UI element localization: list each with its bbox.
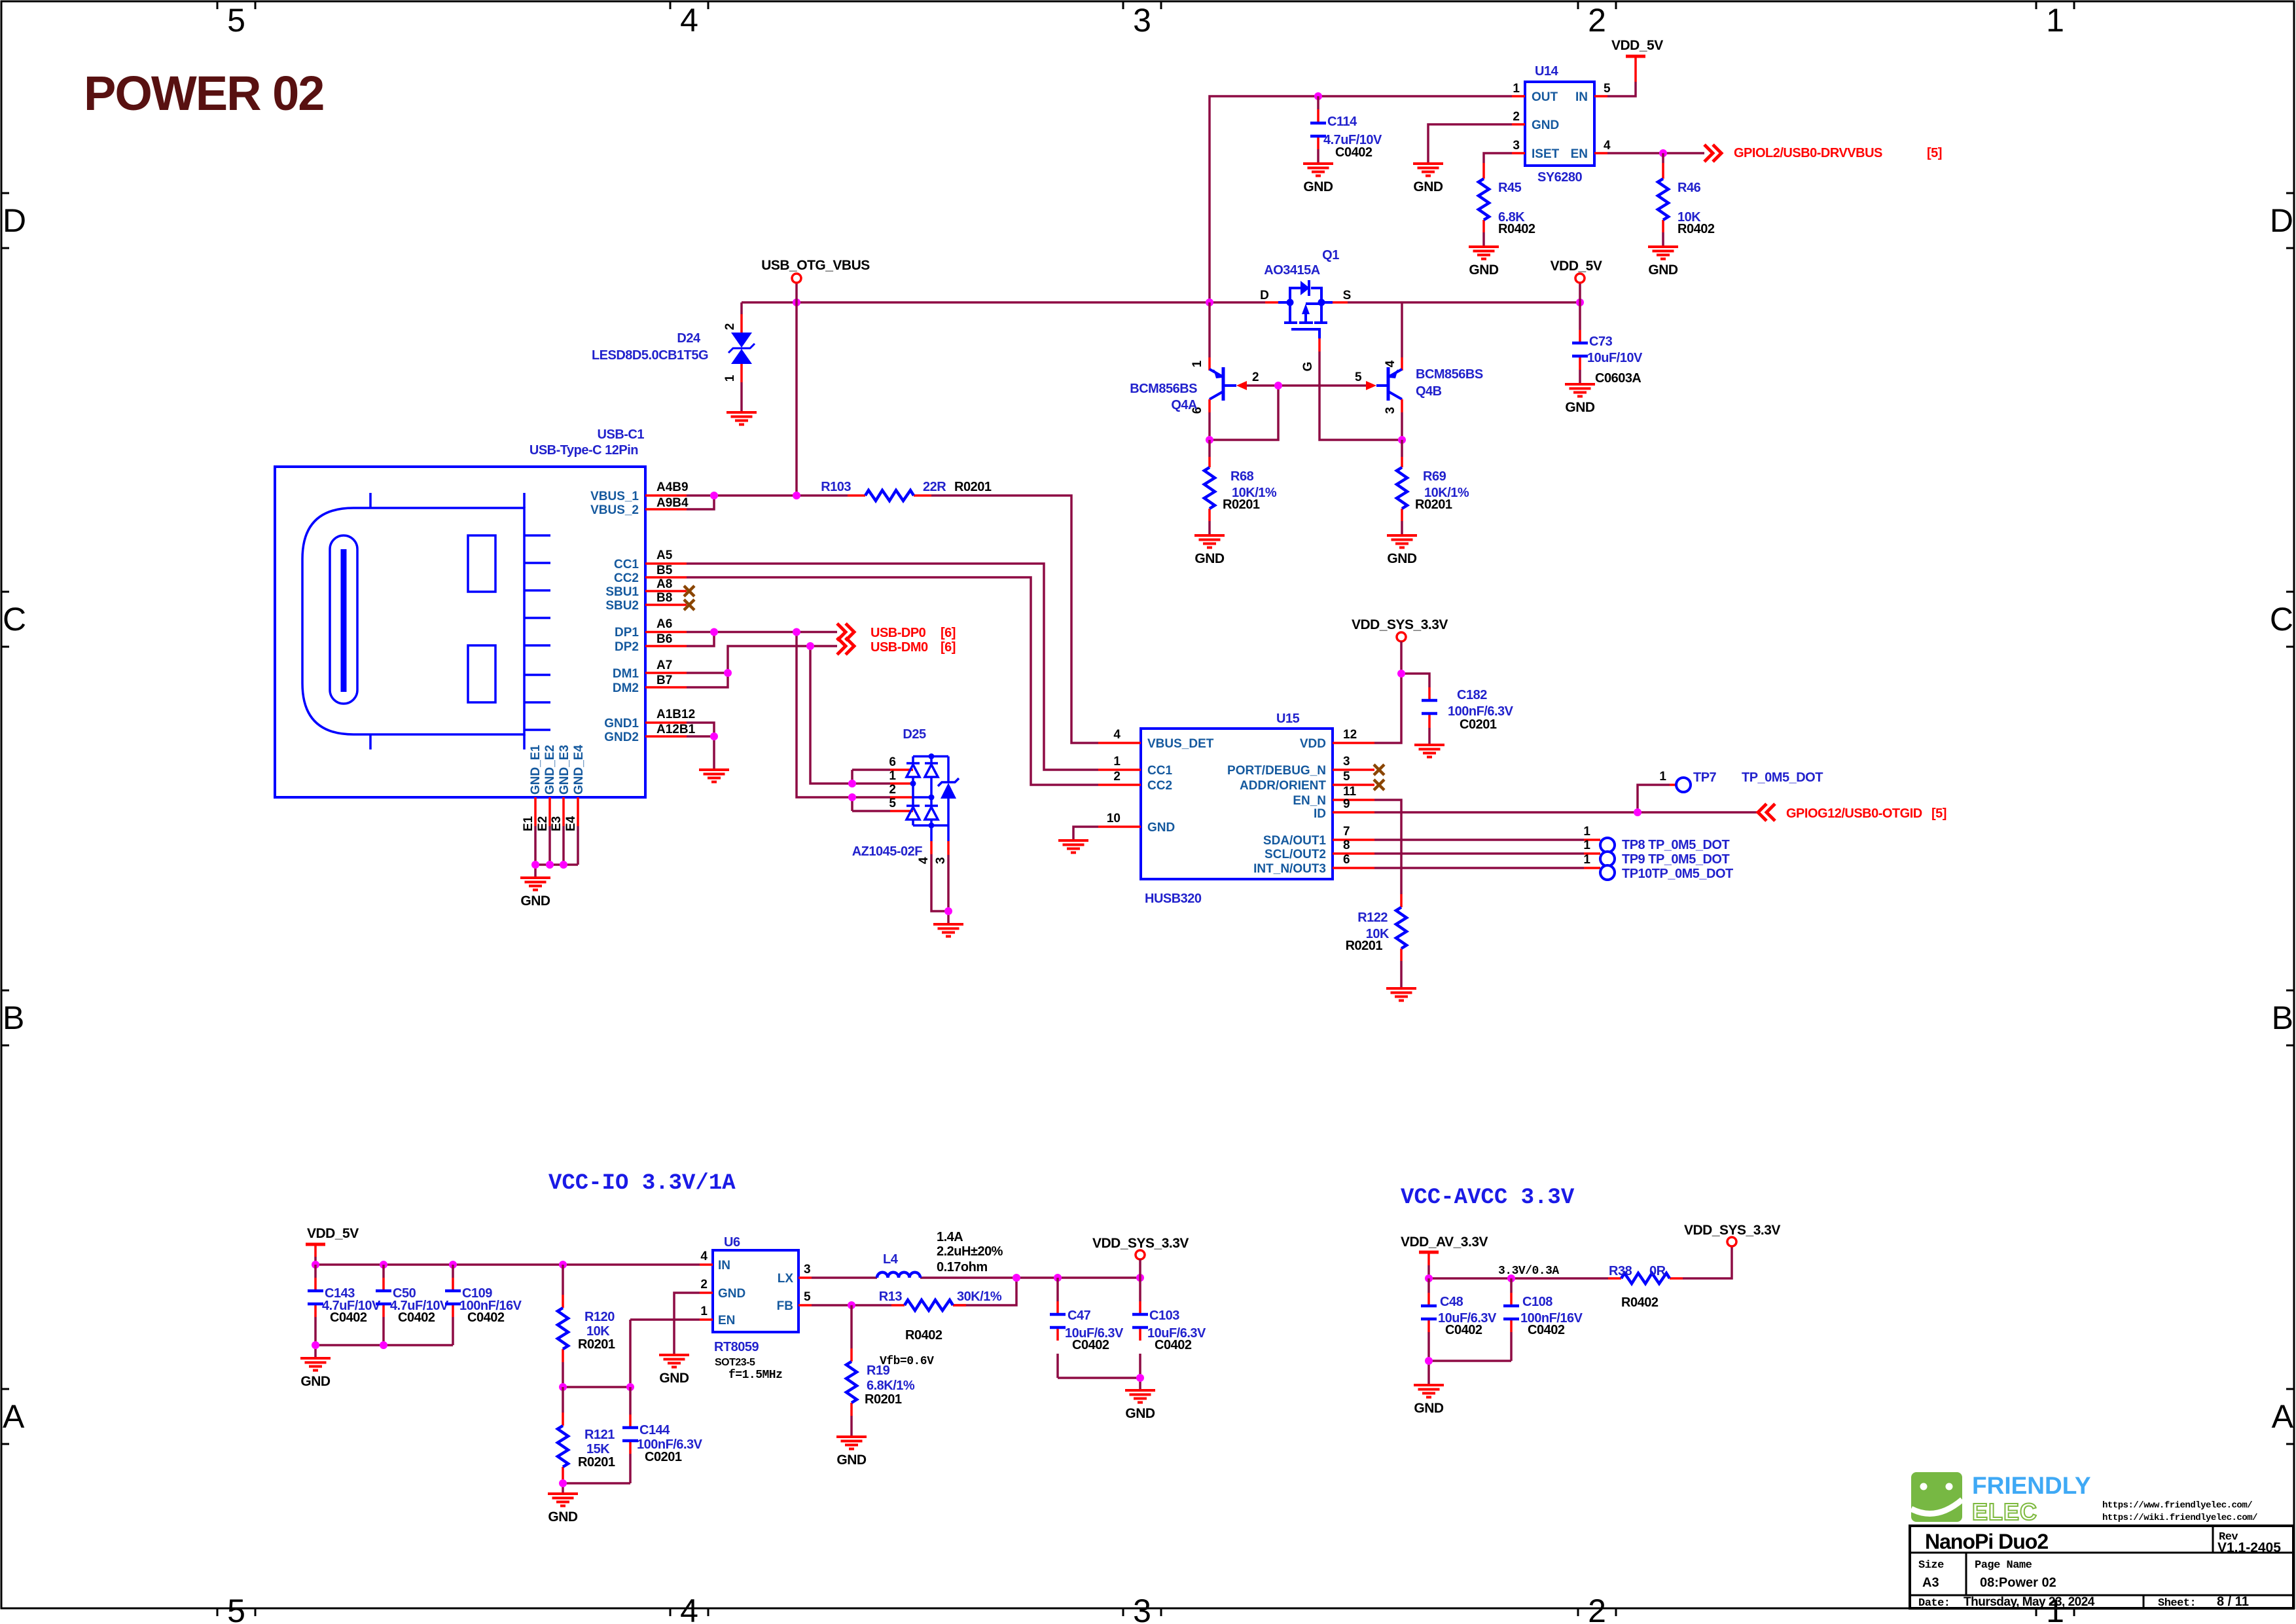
svg-text:FB: FB (777, 1299, 793, 1313)
no-connect X SBU1 (684, 586, 694, 596)
wire EN divider tie (563, 1320, 700, 1387)
svg-text:A: A (2272, 1398, 2294, 1435)
svg-text:GND: GND (718, 1287, 745, 1301)
svg-text:B6: B6 (656, 632, 672, 646)
pin DM2 B7 (645, 686, 687, 689)
node R121 junction (559, 1383, 567, 1391)
svg-text:TP10TP_0M5_DOT: TP10TP_0M5_DOT (1622, 867, 1733, 881)
ground output caps (1125, 1390, 1155, 1403)
wire U14 GND (pin2) (1428, 124, 1512, 164)
power symbol VDD_5V near Q1 (1579, 283, 1581, 302)
svg-text:C0402: C0402 (330, 1310, 367, 1325)
node C50 junction (380, 1261, 387, 1269)
node GND tie junction (710, 732, 718, 740)
svg-text:1: 1 (1659, 770, 1666, 784)
svg-text:SBU2: SBU2 (605, 599, 639, 613)
svg-text:GND_E4: GND_E4 (572, 745, 586, 795)
svg-text:3: 3 (1133, 1593, 1151, 1624)
wire Q4B collector down (1401, 412, 1403, 440)
svg-text:TP9 TP_0M5_DOT: TP9 TP_0M5_DOT (1622, 852, 1729, 867)
svg-text:OUT: OUT (1532, 90, 1558, 104)
pin 7 SDA/OUT1 (1333, 839, 1374, 841)
node R46 junction (1659, 149, 1667, 157)
svg-text:f=1.5MHz: f=1.5MHz (728, 1369, 782, 1382)
wire DM net (687, 646, 890, 784)
svg-text:SOT23-5: SOT23-5 (715, 1357, 755, 1368)
pin VBUS_1 A4B9 (645, 494, 687, 497)
wire U14 ISET (pin3) to R45 (1484, 153, 1512, 163)
svg-text:A7: A7 (656, 659, 672, 672)
svg-text:C: C (2270, 601, 2293, 638)
svg-text:C0402: C0402 (1155, 1338, 1192, 1352)
svg-text:1.4A: 1.4A (937, 1230, 963, 1244)
svg-text:1: 1 (1583, 825, 1590, 839)
svg-text:POWER 02: POWER 02 (84, 66, 323, 120)
svg-text:C144: C144 (639, 1423, 670, 1437)
pin GND_E1..E4 labels (529, 745, 586, 795)
resistor R46 (1658, 153, 1715, 247)
svg-text:[5]: [5] (1927, 146, 1942, 160)
node pin2 junction (848, 793, 856, 801)
pin 3 (947, 841, 950, 855)
pin 3 PORT/DEBUG_N (1333, 768, 1374, 771)
svg-text:VCC-AVCC 3.3V: VCC-AVCC 3.3V (1401, 1185, 1575, 1210)
power symbol USB_OTG_VBUS (795, 283, 798, 302)
svg-text:SCL/OUT2: SCL/OUT2 (1265, 848, 1326, 861)
svg-text:A6: A6 (656, 617, 672, 631)
svg-text:https://wiki.friendlyelec.com/: https://wiki.friendlyelec.com/ (2102, 1513, 2257, 1523)
IC U6 RT8059 (700, 1235, 812, 1382)
svg-text:4: 4 (680, 1593, 698, 1624)
svg-text:5: 5 (227, 2, 245, 39)
capacitor C144 (622, 1387, 703, 1483)
svg-text:GND_E3: GND_E3 (558, 745, 571, 795)
ground below C114 (1303, 164, 1333, 176)
svg-text:VDD_5V: VDD_5V (1611, 38, 1663, 53)
svg-text:GND: GND (1147, 821, 1175, 835)
no-connect X pin5 (1374, 780, 1384, 790)
ground D25 (933, 924, 963, 937)
ground USB-C shield (699, 770, 729, 782)
svg-text:VDD: VDD (1300, 737, 1326, 751)
svg-text:D24: D24 (677, 331, 701, 346)
svg-text:Page Name: Page Name (1975, 1559, 2032, 1572)
svg-text:GND1: GND1 (604, 717, 639, 731)
svg-text:BCM856BS: BCM856BS (1130, 382, 1197, 396)
svg-text:E1: E1 (522, 816, 535, 831)
svg-text:G: G (1301, 362, 1315, 372)
pin 10 GND (1098, 825, 1141, 828)
svg-text:B5: B5 (656, 564, 673, 577)
pin SBU2 B8 (645, 604, 687, 606)
svg-text:30K/1%: 30K/1% (957, 1290, 1002, 1304)
svg-text:22R: 22R (923, 480, 946, 494)
svg-text:3: 3 (804, 1263, 811, 1276)
svg-text:E4: E4 (564, 816, 578, 831)
node R19 junction (848, 1301, 855, 1309)
transistor Q1 AO3415A (P-MOSFET) (1260, 248, 1351, 371)
ground below R122 (1386, 988, 1416, 1001)
wire VDD_5V to U14 IN (pin5) (1607, 82, 1636, 96)
svg-text:A9B4: A9B4 (656, 496, 689, 510)
svg-text:12: 12 (1343, 728, 1357, 742)
svg-text:C0402: C0402 (1335, 145, 1372, 160)
svg-text:2: 2 (1113, 770, 1121, 784)
svg-text:L4: L4 (883, 1252, 899, 1267)
test point TP7 (1670, 784, 1676, 786)
node C103 junction (1136, 1274, 1144, 1282)
node E2 junction (546, 861, 554, 869)
wire SCL/OUT2 to TP9 (1374, 852, 1584, 855)
svg-text:1: 1 (1113, 755, 1121, 768)
wire Q1 gate down to Q4B collector net (1319, 352, 1402, 440)
wire VDD_5V input rail (315, 1263, 700, 1266)
svg-text:GND: GND (1532, 118, 1559, 132)
IC U15 box (1098, 712, 1374, 906)
svg-text:TP_0M5_DOT: TP_0M5_DOT (1742, 770, 1823, 785)
resistor R45 (1479, 163, 1535, 247)
svg-text:8: 8 (1343, 839, 1350, 852)
wire U15 GND pin10 (1073, 827, 1098, 840)
pin E3 (562, 797, 565, 826)
svg-text:D: D (3, 202, 26, 239)
svg-text:2: 2 (1252, 370, 1259, 384)
svg-text:R0402: R0402 (1498, 222, 1535, 236)
capacitor C103 (1132, 1278, 1206, 1378)
capacitor C143 (308, 1265, 381, 1345)
svg-text:IN: IN (1575, 90, 1588, 104)
svg-text:A8: A8 (656, 577, 672, 591)
svg-text:VDD_SYS_3.3V: VDD_SYS_3.3V (1684, 1223, 1780, 1238)
svg-text:INT_N/OUT3: INT_N/OUT3 (1253, 862, 1326, 876)
svg-text:GND: GND (1565, 400, 1595, 415)
pin 2 (890, 796, 913, 799)
svg-text:1: 1 (700, 1305, 708, 1318)
node VBUS column junction (793, 492, 800, 499)
diode D24 LESD8D5.0CB1T5G (TVS) (592, 302, 755, 412)
svg-text:R68: R68 (1230, 469, 1254, 484)
svg-text:EN: EN (1571, 147, 1588, 161)
svg-text:1: 1 (1583, 853, 1590, 867)
svg-text:R0402: R0402 (1621, 1295, 1659, 1310)
svg-text:8 / 11: 8 / 11 (2217, 1595, 2249, 1609)
ground below D24 (726, 412, 757, 425)
svg-text:C0402: C0402 (1528, 1323, 1565, 1337)
svg-text:R0402: R0402 (1677, 222, 1715, 236)
svg-text:U15: U15 (1276, 712, 1300, 726)
svg-text:ADDR/ORIENT: ADDR/ORIENT (1240, 779, 1326, 793)
svg-text:C0201: C0201 (1460, 717, 1497, 732)
wire LX output rail (812, 1276, 1140, 1279)
capacitor C114 (1310, 96, 1382, 164)
svg-text:C0402: C0402 (398, 1310, 435, 1325)
svg-text:R0201: R0201 (1415, 497, 1452, 512)
resistor R38 0R (1608, 1264, 1683, 1310)
pin CC2 B5 (645, 576, 687, 579)
pin 1 (890, 782, 913, 785)
ground avcc caps (1414, 1385, 1444, 1398)
connector USB-C1 body (275, 427, 645, 797)
wire divider bottom tie (563, 1483, 630, 1494)
wire avcc caps bottom tie (1429, 1361, 1511, 1385)
logo FriendlyElec smiley (1911, 1472, 2091, 1525)
svg-text:[5]: [5] (1931, 806, 1946, 821)
diode network body (906, 757, 959, 842)
svg-text:GND: GND (520, 893, 550, 909)
svg-text:10uF/10V: 10uF/10V (1587, 351, 1643, 365)
wire ID to off-page and test points (1374, 785, 1758, 812)
node Q4A base junction (1274, 382, 1282, 389)
pin 4 VBUS_DET (1098, 742, 1141, 744)
svg-text:6: 6 (889, 755, 896, 769)
svg-text:C0603A: C0603A (1595, 371, 1641, 386)
svg-text:Thursday, May 23, 2024: Thursday, May 23, 2024 (1964, 1595, 2095, 1609)
svg-text:5: 5 (1604, 82, 1611, 96)
svg-text:CC2: CC2 (1147, 779, 1172, 793)
ground below R68 (1194, 535, 1225, 548)
wire pin2-pin5 loop (851, 797, 853, 811)
svg-text:GND: GND (300, 1374, 331, 1389)
pin 1 EN (700, 1318, 713, 1321)
svg-text:R103: R103 (821, 480, 851, 494)
wire GND1/GND2 tie (687, 723, 714, 770)
svg-text:R46: R46 (1677, 181, 1701, 195)
node DP column junction (793, 628, 800, 636)
node Q4B collector junction (1398, 436, 1406, 444)
svg-text:VBUS_1: VBUS_1 (590, 490, 639, 503)
node TP7 junction (1634, 808, 1641, 816)
svg-text:D: D (1260, 289, 1269, 302)
svg-text:0R: 0R (1649, 1264, 1666, 1278)
ground below R45 (1469, 247, 1499, 259)
svg-text:2: 2 (1588, 2, 1606, 39)
svg-text:B: B (3, 1000, 24, 1036)
svg-text:R0201: R0201 (578, 1337, 615, 1352)
svg-text:SY6280: SY6280 (1537, 170, 1583, 185)
pin VBUS_2 A9B4 (645, 508, 687, 511)
svg-text:Q1: Q1 (1322, 248, 1339, 262)
svg-text:GND: GND (1194, 551, 1225, 566)
wire CC1 to U15 (687, 564, 1098, 770)
resistor R19 (846, 1305, 915, 1437)
svg-text:TP7: TP7 (1693, 770, 1717, 785)
svg-text:LX: LX (778, 1272, 794, 1286)
svg-text:R0201: R0201 (1346, 939, 1383, 953)
svg-text:GND_E1: GND_E1 (529, 745, 543, 795)
svg-text:1: 1 (1191, 360, 1204, 367)
svg-text:TP8 TP_0M5_DOT: TP8 TP_0M5_DOT (1622, 838, 1729, 852)
svg-text:B7: B7 (656, 674, 672, 687)
node C109 junction (449, 1261, 457, 1269)
capacitor C108 (1503, 1278, 1583, 1361)
svg-text:5: 5 (1343, 770, 1350, 784)
svg-text:3: 3 (1384, 407, 1397, 414)
svg-text:B8: B8 (656, 591, 672, 605)
resistor R69 (1397, 440, 1469, 535)
wire Q4A collector to base tie (1210, 386, 1366, 440)
svg-text:C73: C73 (1589, 334, 1613, 349)
wire EN_N to R122 (1374, 800, 1401, 894)
wire main VBUS switch rail (742, 301, 1580, 304)
svg-text:GND: GND (1648, 262, 1678, 278)
off-page connector GPIOL2/USB0-DRVVBUS (1704, 145, 1721, 162)
ground U15 (1058, 840, 1088, 853)
svg-text:1: 1 (2046, 2, 2064, 39)
pin 5 FB (798, 1304, 812, 1307)
off-page connector USB-DM0 (837, 638, 854, 655)
test point TP10 (1600, 865, 1615, 880)
node LX/FB tap junction (1013, 1274, 1020, 1282)
pin GND2 A12B1 (645, 735, 687, 738)
no-connect X SBU2 (684, 600, 694, 610)
svg-text:C103: C103 (1149, 1308, 1179, 1323)
ground divider (548, 1494, 578, 1506)
svg-text:VDD_SYS_3.3V: VDD_SYS_3.3V (1092, 1236, 1189, 1251)
svg-text:C0402: C0402 (467, 1310, 505, 1325)
ground below R46 (1648, 247, 1678, 259)
ground E pins (520, 878, 550, 890)
svg-text:11: 11 (1343, 785, 1357, 799)
wire pin6-pin1 loop (851, 770, 853, 784)
capacitor C47 (1050, 1278, 1124, 1378)
node C47 junction (1054, 1274, 1062, 1282)
svg-text:10K: 10K (586, 1324, 610, 1339)
svg-text:ISET: ISET (1532, 147, 1560, 161)
svg-text:CC1: CC1 (614, 558, 639, 571)
pin 6 INT_N/OUT3 (1333, 867, 1374, 869)
svg-text:R45: R45 (1498, 181, 1522, 195)
ground below C73 (1565, 384, 1595, 397)
svg-text:SDA/OUT1: SDA/OUT1 (1263, 834, 1327, 848)
svg-text:5: 5 (889, 797, 896, 810)
ground below R69 (1387, 535, 1417, 548)
svg-text:A: A (3, 1398, 25, 1435)
svg-text:VCC-IO 3.3V/1A: VCC-IO 3.3V/1A (548, 1171, 736, 1196)
svg-text:Sheet:: Sheet: (2158, 1597, 2196, 1610)
ground U14 pin2 (1413, 164, 1443, 176)
svg-text:6: 6 (1343, 853, 1350, 867)
svg-text:R13: R13 (879, 1290, 903, 1304)
svg-text:C0402: C0402 (1445, 1323, 1482, 1337)
svg-text:GPIOG12/USB0-OTGID: GPIOG12/USB0-OTGID (1786, 806, 1922, 821)
svg-text:1: 1 (723, 374, 737, 382)
ground below R19 (836, 1437, 867, 1449)
svg-text:B: B (2272, 1000, 2293, 1036)
pin DP1 A6 (645, 631, 687, 634)
node U14-OUT rail junction (1206, 298, 1213, 306)
svg-text:5: 5 (804, 1290, 811, 1304)
svg-text:5: 5 (1355, 370, 1362, 384)
svg-text:ELEC: ELEC (1972, 1498, 2037, 1525)
pin CC1 A5 (645, 562, 687, 565)
node VDD_5V rail junction (1576, 298, 1584, 306)
svg-text:15K: 15K (586, 1442, 610, 1456)
capacitor C109 (445, 1265, 522, 1345)
ground input caps (300, 1358, 331, 1371)
resistor R13 30K/1% (879, 1290, 1002, 1343)
svg-text:C114: C114 (1327, 115, 1357, 129)
pin 4 IN (700, 1263, 713, 1266)
svg-text:IN: IN (718, 1259, 730, 1272)
node E3 junction (560, 861, 567, 869)
ground below C182 (1414, 745, 1444, 757)
pin 3 LX (798, 1276, 812, 1279)
svg-text:2.2uH±20%: 2.2uH±20% (937, 1244, 1003, 1259)
svg-text:4: 4 (1384, 360, 1397, 367)
svg-text:R121: R121 (584, 1428, 615, 1442)
svg-text:9: 9 (1343, 797, 1350, 811)
svg-text:AO3415A: AO3415A (1264, 263, 1319, 278)
pin 5 ADDR/ORIENT (1333, 784, 1374, 786)
svg-text:3: 3 (934, 857, 948, 864)
node DM tie junction (724, 669, 732, 677)
svg-text:E3: E3 (550, 816, 564, 831)
svg-text:EN_N: EN_N (1293, 794, 1326, 808)
svg-text:C0402: C0402 (1072, 1338, 1109, 1352)
svg-text:C108: C108 (1522, 1295, 1552, 1309)
svg-text:08:Power 02: 08:Power 02 (1980, 1576, 2056, 1590)
svg-text:DP2: DP2 (615, 640, 639, 654)
svg-text:C0201: C0201 (645, 1450, 682, 1464)
capacitor C48 (1421, 1278, 1497, 1361)
pin 12 VDD (1333, 742, 1374, 744)
svg-text:A4B9: A4B9 (656, 480, 689, 494)
node VBUS tie junction (710, 492, 718, 499)
svg-text:1: 1 (1513, 82, 1520, 96)
svg-text:VDD_SYS_3.3V: VDD_SYS_3.3V (1352, 617, 1448, 632)
svg-text:VDD_5V: VDD_5V (1551, 259, 1602, 274)
pin DM1 A7 (645, 672, 687, 674)
svg-text:GND: GND (1303, 179, 1333, 194)
svg-text:Date:: Date: (1918, 1597, 1950, 1610)
pin DP2 B6 (645, 645, 687, 647)
node avcc gnd junction (1425, 1357, 1433, 1365)
node E1 junction (531, 861, 539, 869)
svg-text:2: 2 (723, 323, 737, 331)
svg-text:C48: C48 (1440, 1295, 1463, 1309)
pin 4 (930, 841, 933, 854)
svg-text:BCM856BS: BCM856BS (1416, 367, 1483, 382)
svg-text:GND: GND (1413, 179, 1443, 194)
svg-text:GND: GND (659, 1371, 689, 1386)
svg-text:4: 4 (1604, 139, 1611, 153)
no-connect X pin3 (1374, 765, 1384, 775)
pin E1 (534, 797, 537, 826)
svg-text:Size: Size (1918, 1559, 1944, 1572)
svg-text:2: 2 (1588, 1593, 1606, 1624)
svg-text:5: 5 (227, 1593, 245, 1624)
svg-text:3.3V/0.3A: 3.3V/0.3A (1498, 1265, 1559, 1278)
svg-text:7: 7 (1343, 825, 1350, 839)
pin E2 (548, 797, 551, 826)
off-page connector GPIOG12/USB0-OTGID (1758, 804, 1775, 821)
svg-text:VDD_5V: VDD_5V (307, 1226, 359, 1241)
node DP tie junction (710, 628, 718, 636)
svg-text:V1.1-2405: V1.1-2405 (2217, 1540, 2281, 1555)
diode array D25 AZ1045-02F (848, 727, 959, 864)
resistor R121 (558, 1387, 615, 1483)
wire U14 EN (pin4) to off-page (1607, 152, 1704, 154)
capacitor C50 (376, 1265, 449, 1345)
resistor R68 (1204, 440, 1277, 535)
svg-text:D: D (2270, 202, 2293, 239)
svg-text:GND: GND (1414, 1401, 1444, 1416)
svg-text:4: 4 (680, 2, 698, 39)
svg-text:4: 4 (1113, 728, 1121, 742)
wire U14 OUT net (pin1 to rail) (1210, 96, 1512, 302)
svg-text:CC2: CC2 (614, 571, 639, 585)
svg-text:HUSB320: HUSB320 (1145, 892, 1202, 906)
